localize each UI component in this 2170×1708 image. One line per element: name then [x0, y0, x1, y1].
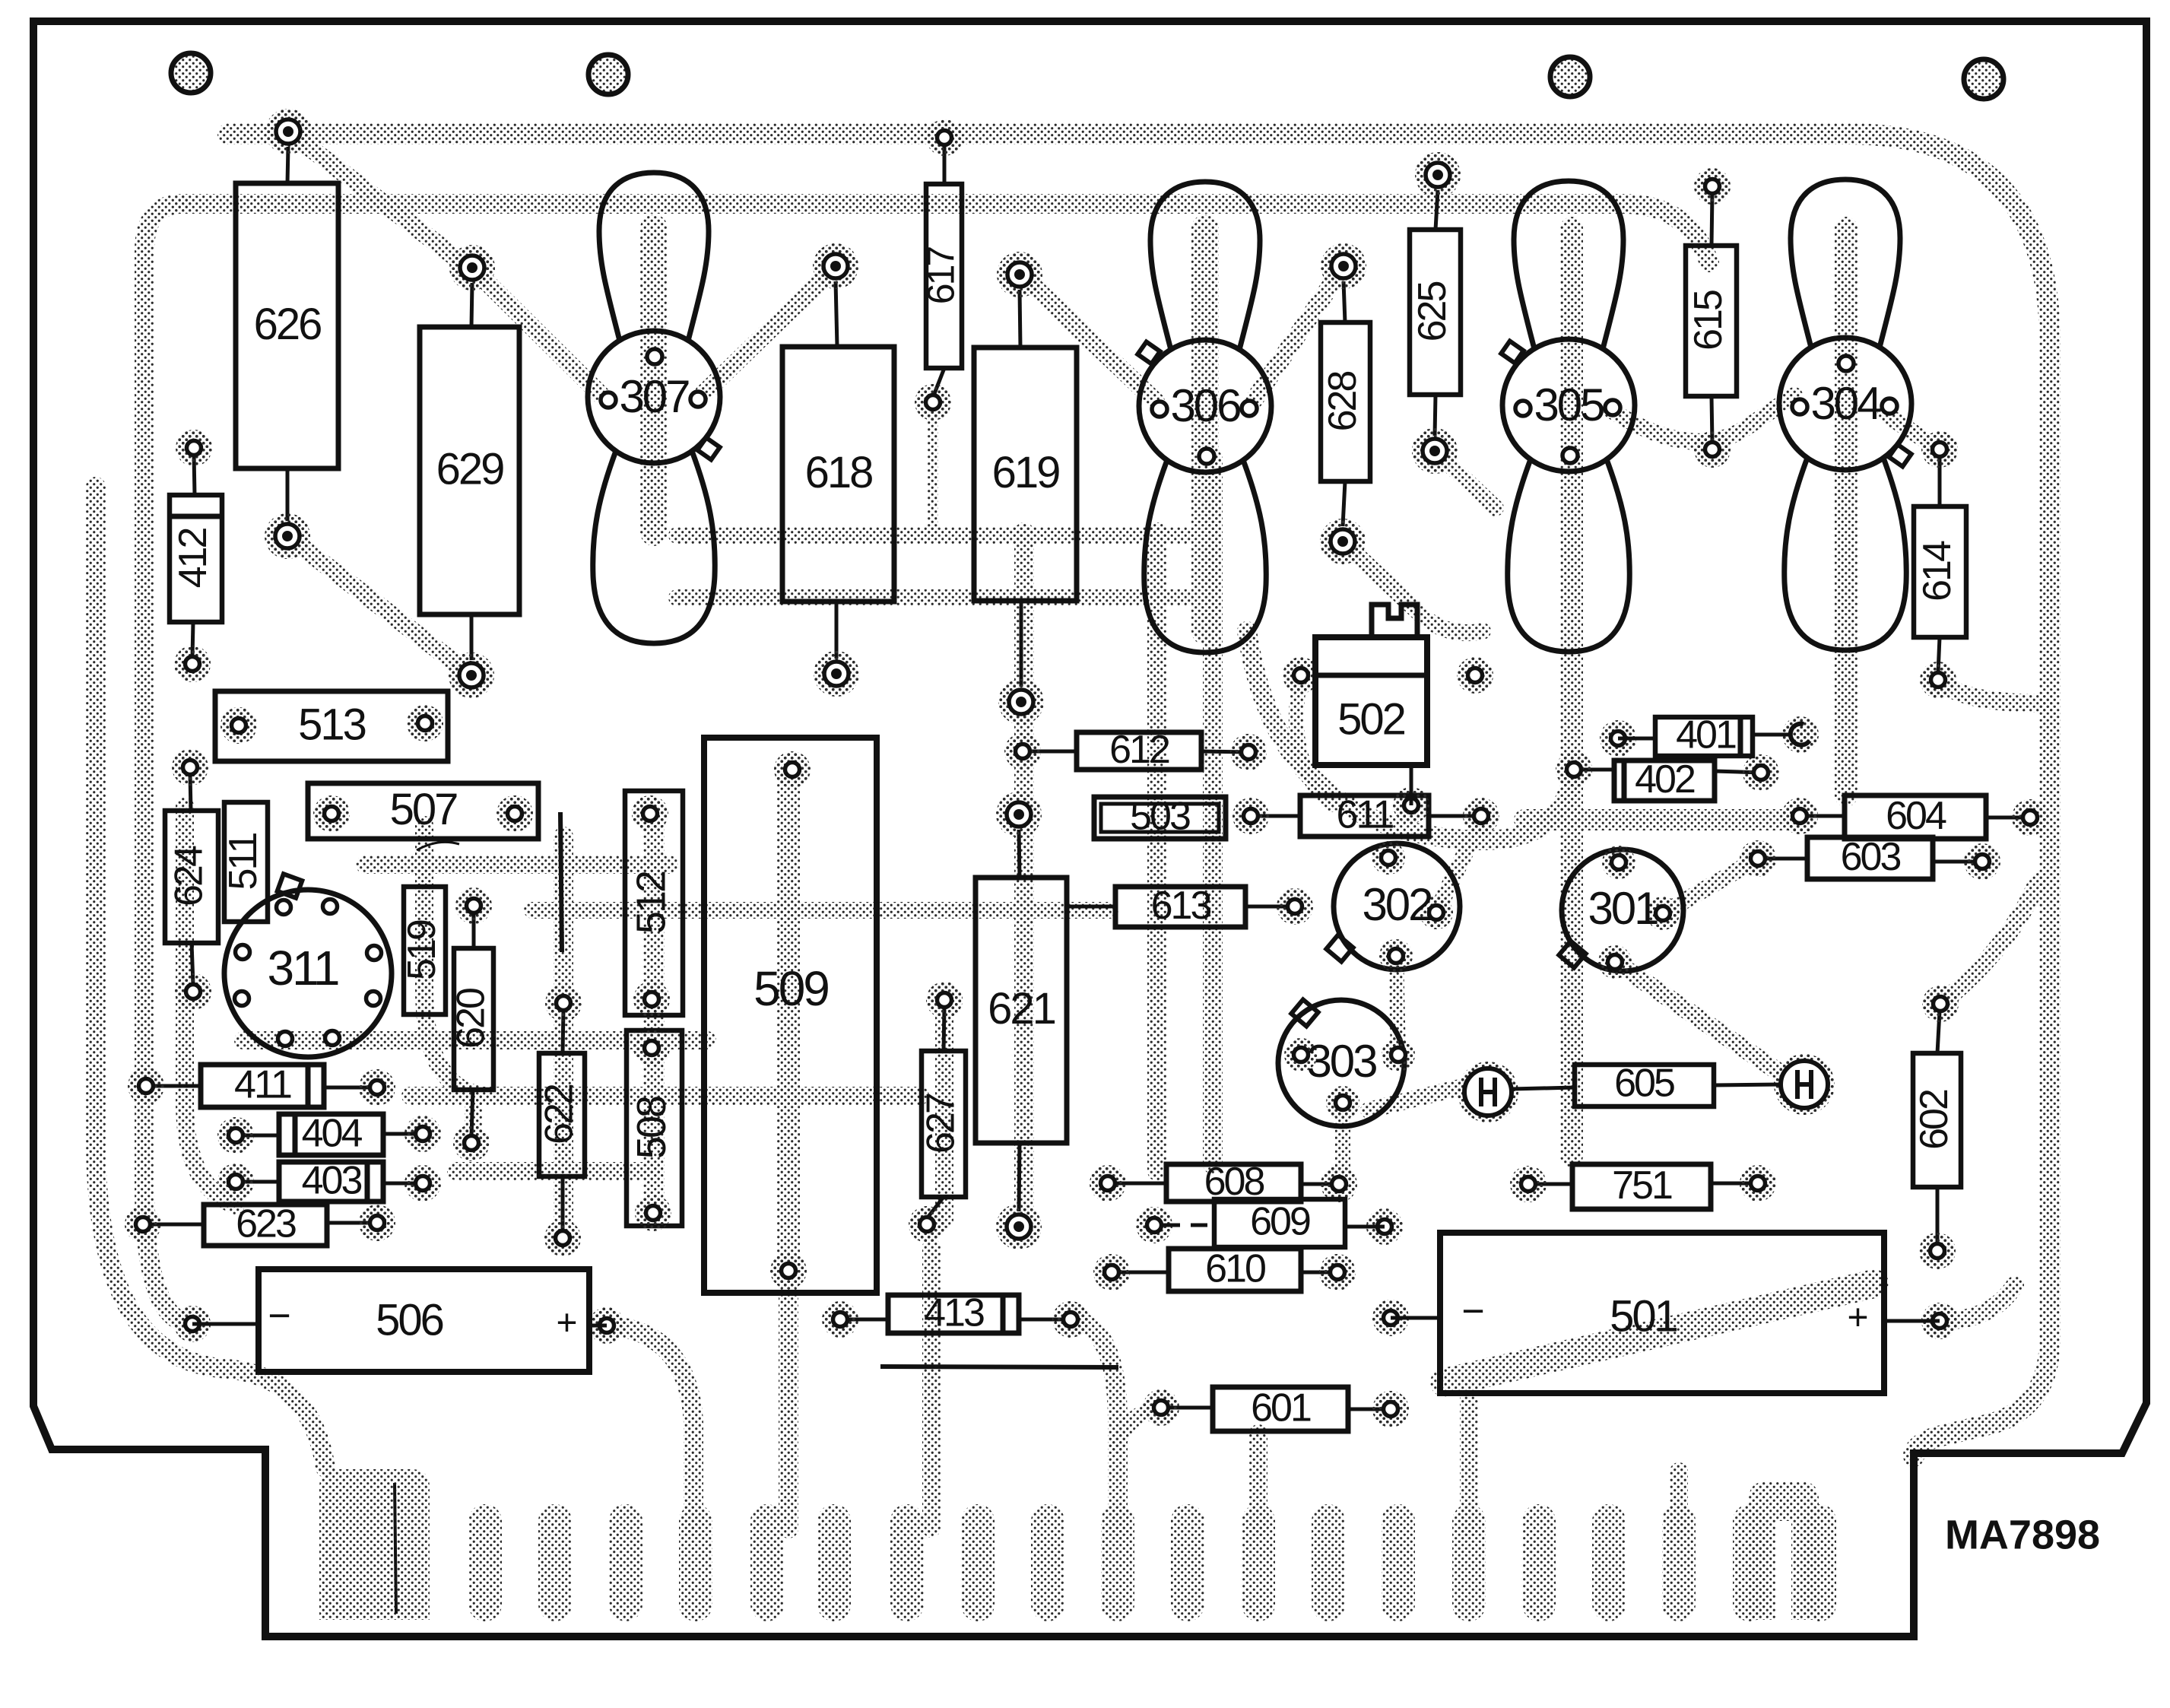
transistor 302	[1326, 935, 1353, 961]
svg-text:509: 509	[753, 961, 828, 1016]
trace diag 304 to 614	[1886, 414, 1940, 449]
diode 401	[1600, 720, 1636, 757]
trace horizontal y1197	[532, 902, 1110, 919]
transistor 301	[1559, 941, 1585, 967]
diode 411	[146, 1084, 201, 1088]
capacitor 618	[836, 281, 837, 347]
trace diag 306 right	[1255, 266, 1344, 399]
svg-text:512: 512	[628, 871, 674, 934]
resistor 624	[190, 774, 191, 811]
capacitor 503	[1094, 797, 1226, 839]
edge connector finger 11	[1171, 1521, 1204, 1605]
svg-text:621: 621	[988, 984, 1055, 1033]
resistor 519	[404, 887, 446, 1014]
svg-text:624: 624	[167, 846, 211, 906]
mounting hole 4	[1964, 59, 2003, 99]
capacitor 629	[471, 283, 472, 327]
resistor 751	[1528, 1183, 1572, 1186]
svg-text:625: 625	[1410, 282, 1455, 342]
edge connector finger 5	[750, 1521, 784, 1605]
trace diag 306 left	[1021, 275, 1156, 402]
svg-text:609: 609	[1250, 1200, 1310, 1244]
resistor 511	[224, 802, 268, 922]
svg-text:627: 627	[919, 1094, 963, 1154]
edge connector finger 15	[1452, 1521, 1486, 1605]
edge connector finger 4	[679, 1521, 712, 1605]
capacitor 626	[287, 147, 288, 183]
edge connector finger 20	[1803, 1521, 1836, 1605]
svg-text:−: −	[1461, 1290, 1483, 1334]
svg-text:311: 311	[267, 941, 338, 995]
svg-text:404: 404	[302, 1112, 363, 1156]
svg-text:403: 403	[302, 1159, 362, 1203]
trace arc to 506 right	[607, 1325, 693, 1529]
svg-text:619: 619	[992, 448, 1060, 497]
svg-text:501: 501	[1610, 1291, 1677, 1341]
resistor 601	[1161, 1406, 1213, 1410]
trace 602 top link	[1940, 882, 2038, 1004]
trace top bus B	[144, 204, 192, 1324]
resistor 623	[143, 1223, 204, 1227]
resistor 625	[1436, 190, 1438, 230]
svg-text:614: 614	[1915, 541, 1959, 602]
svg-text:413: 413	[924, 1291, 984, 1335]
mounting hole 1	[171, 53, 211, 93]
capacitor 506	[174, 1306, 211, 1342]
svg-text:506: 506	[376, 1295, 443, 1344]
svg-text:401: 401	[1676, 713, 1736, 757]
transistor 304	[1791, 179, 1900, 348]
transistor 305	[1514, 181, 1623, 349]
edge connector finger 19	[1733, 1521, 1766, 1605]
svg-text:751: 751	[1612, 1164, 1672, 1208]
capacitor 512	[625, 791, 683, 1015]
trace horizontal y704	[677, 527, 1186, 544]
edge connector finger 7	[890, 1521, 924, 1605]
svg-text:306: 306	[1170, 380, 1240, 431]
scan line artifact in connector	[395, 1483, 396, 1614]
trace vertical at 519	[424, 825, 474, 1137]
trace vertical under 304	[1835, 228, 1858, 795]
svg-text:617: 617	[920, 247, 963, 305]
svg-text:605: 605	[1614, 1062, 1674, 1106]
trace col x1655 down	[1249, 1433, 1267, 1529]
trace vertical under 306	[1191, 228, 1219, 631]
trace right link y925	[1938, 680, 2045, 703]
trace arc 601	[1118, 1408, 1161, 1445]
svg-text:513: 513	[298, 700, 366, 749]
svg-text:612: 612	[1109, 728, 1169, 772]
trace col under 627	[922, 1247, 941, 1529]
capacitor 513	[215, 691, 448, 761]
trace diag 307 right	[703, 266, 836, 394]
svg-text:626: 626	[254, 300, 322, 349]
transistor 303	[1291, 999, 1318, 1026]
edge connector arch right	[1749, 1481, 1819, 1620]
resistor 613	[1067, 905, 1115, 909]
trace thin under 617 pad	[928, 411, 938, 532]
edge connector wide finger	[319, 1469, 430, 1620]
trace horizontal y1540	[456, 1162, 654, 1180]
svg-text:−: −	[268, 1294, 289, 1338]
capacitor 501	[1372, 1300, 1409, 1336]
resistor 617	[943, 144, 947, 184]
edge connector finger 8	[961, 1521, 995, 1605]
svg-text:623: 623	[236, 1202, 296, 1246]
resistor 610	[1112, 1271, 1169, 1275]
trace col under 509	[779, 1285, 798, 1529]
resistor 628	[1344, 281, 1345, 322]
trace horizontal y786	[677, 589, 1186, 606]
trace diag 625 bottom	[1435, 451, 1496, 508]
edge connector finger 10	[1101, 1521, 1134, 1605]
resistor 602	[1937, 1011, 1940, 1053]
svg-text:411: 411	[234, 1063, 291, 1107]
svg-text:615: 615	[1686, 290, 1731, 351]
resistor 615	[1712, 193, 1712, 246]
trace diag 628 bottom	[1343, 541, 1483, 633]
capacitor 509	[704, 738, 877, 1293]
edge connector finger 13	[1312, 1521, 1345, 1605]
trace arc 501 plus	[1940, 1285, 2015, 1321]
trace diag 305-304 link	[1612, 395, 1794, 442]
trace horizontal to 603	[1524, 809, 1794, 830]
trace 303 to 605 left	[1369, 1084, 1475, 1110]
trace 302 down	[1396, 956, 1398, 1055]
resistor 622	[563, 1010, 563, 1053]
edge connector finger 17	[1592, 1521, 1626, 1605]
svg-text:502: 502	[1337, 694, 1405, 744]
svg-text:602: 602	[1912, 1090, 1956, 1150]
trace 303 down	[1335, 1103, 1350, 1184]
diode 403	[236, 1180, 279, 1184]
svg-text:412: 412	[171, 529, 215, 589]
trace horizontal y1441	[411, 1087, 920, 1105]
svg-text:305: 305	[1534, 379, 1604, 430]
svg-text:+: +	[1847, 1298, 1867, 1338]
trace arc around 502	[1247, 631, 1574, 840]
capacitor 621	[1019, 830, 1020, 878]
trace vertical under 305	[1560, 228, 1583, 1156]
transistor 307	[599, 173, 709, 341]
trace diag 307 left	[472, 268, 603, 397]
diode 402	[1574, 768, 1614, 772]
resistor 604	[1800, 814, 1845, 818]
svg-text:603: 603	[1841, 835, 1901, 879]
trace 301 to 605	[1615, 962, 1779, 1072]
svg-text:303: 303	[1306, 1036, 1376, 1087]
resistor 614	[1938, 456, 1942, 506]
trace horizontal y1137	[365, 856, 669, 874]
diode 404	[236, 1134, 279, 1138]
trace diag 626 to 629 top	[288, 132, 466, 265]
trace vertical x1242 under 627	[935, 1000, 953, 1221]
svg-text:507: 507	[390, 785, 458, 834]
resistor 620	[472, 913, 476, 948]
trace horizontal y1363	[243, 1031, 707, 1049]
svg-text:301: 301	[1588, 883, 1658, 934]
trace vertical x860	[643, 814, 665, 1213]
scan line artifact under 413	[880, 1367, 1118, 1367]
resistor 611	[1251, 814, 1300, 818]
svg-text:307: 307	[619, 371, 689, 422]
trace arc 413 to finger	[1071, 1319, 1118, 1529]
svg-text:511: 511	[221, 833, 265, 890]
resistor 605 with transistor caps	[1458, 1062, 1518, 1122]
resistor 609	[1136, 1207, 1172, 1243]
edge connector finger 9	[1031, 1521, 1064, 1605]
trace vertical x1347 under 621	[1014, 532, 1034, 1224]
edge connector finger 3	[609, 1521, 642, 1605]
trace 302 to 611	[1436, 820, 1481, 913]
svg-text:604: 604	[1886, 794, 1946, 838]
svg-text:611: 611	[1337, 793, 1394, 837]
svg-text:613: 613	[1151, 884, 1211, 928]
tube socket 311	[278, 874, 303, 897]
jumper wire left of 512	[560, 812, 562, 952]
capacitor 508	[627, 1030, 682, 1226]
svg-text:620: 620	[449, 989, 493, 1049]
capacitor 507	[308, 783, 538, 839]
trace arc 502 inner	[1296, 675, 1331, 805]
diode 413	[840, 1318, 888, 1322]
svg-text:601: 601	[1251, 1386, 1311, 1430]
svg-text:629: 629	[436, 444, 504, 494]
trace vertical x741	[554, 837, 573, 1238]
svg-text:MA7898: MA7898	[1945, 1512, 2100, 1557]
svg-text:402: 402	[1635, 757, 1695, 802]
svg-text:+: +	[556, 1303, 576, 1344]
trace vertical mid 1522	[1147, 532, 1167, 1171]
svg-text:304: 304	[1810, 378, 1881, 429]
edge connector finger 6	[817, 1521, 851, 1605]
svg-text:302: 302	[1362, 879, 1432, 930]
svg-text:508: 508	[629, 1097, 674, 1159]
trace diag 626 to 629 bottom	[287, 536, 465, 671]
trace diag inside 501	[1445, 1284, 1874, 1383]
transformer 502	[1283, 657, 1319, 694]
capacitor 619	[1020, 290, 1020, 348]
scan mark near 511	[417, 842, 459, 850]
trace vertical 306 to 608	[1203, 459, 1223, 1164]
diode 412	[194, 455, 195, 495]
trace col x1930 down	[1460, 1399, 1478, 1529]
trace vertical x1037 inside 509	[777, 770, 800, 1271]
edge connector finger 2	[538, 1521, 572, 1605]
trace 301 to 603	[1663, 859, 1758, 913]
edge connector finger 12	[1242, 1521, 1275, 1605]
mounting hole 2	[589, 55, 628, 94]
svg-text:628: 628	[1321, 372, 1365, 432]
transistor 306	[1150, 182, 1260, 350]
svg-text:519: 519	[400, 920, 444, 980]
svg-text:622: 622	[538, 1084, 582, 1144]
trace top bus A	[228, 134, 2050, 1456]
trace col x2208 down	[1670, 1471, 1688, 1529]
svg-text:610: 610	[1205, 1247, 1265, 1291]
svg-text:618: 618	[805, 448, 873, 497]
svg-text:503: 503	[1130, 795, 1190, 839]
trace vertical under 307	[640, 228, 668, 532]
mounting hole 3	[1550, 57, 1590, 97]
trace left bus 1	[96, 487, 325, 1468]
edge connector finger 1	[468, 1521, 502, 1605]
resistor 612	[1023, 750, 1077, 754]
edge connector finger 18	[1662, 1521, 1696, 1605]
resistor 603	[1758, 857, 1807, 861]
resistor 627	[944, 1007, 944, 1051]
trace left bus 3	[185, 806, 236, 1205]
edge connector finger 16	[1522, 1521, 1556, 1605]
resistor 608	[1108, 1182, 1166, 1186]
edge connector finger 14	[1382, 1521, 1415, 1605]
